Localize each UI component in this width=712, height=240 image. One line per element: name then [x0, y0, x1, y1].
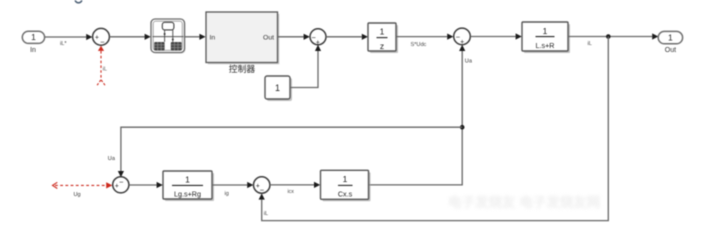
- svg-text:Ua: Ua: [465, 59, 473, 65]
- svg-text:iL: iL: [264, 211, 268, 217]
- wire LgRg to sum5: [212, 184, 247, 186]
- junction Ua node: [460, 125, 465, 130]
- wire LsR to Out1: [568, 36, 652, 38]
- svg-text:Cx.s: Cx.s: [338, 189, 353, 198]
- svg-text:iL: iL: [588, 41, 592, 47]
- subsystem 控制器: [208, 14, 279, 65]
- svg-text:1: 1: [185, 174, 190, 184]
- svg-text:icx: icx: [288, 189, 295, 195]
- svg-text:L.s+R: L.s+R: [536, 41, 555, 50]
- svg-text:−: −: [100, 37, 105, 46]
- svg-text:1: 1: [668, 32, 673, 42]
- junction iL node: [606, 34, 611, 39]
- sum S4: [113, 177, 129, 193]
- transfer fcn 1/(Lg.s+Rg): [165, 173, 214, 201]
- sum S1: [93, 28, 110, 45]
- unit delay 1/z: [370, 25, 398, 53]
- svg-text:Lg.s+Rg: Lg.s+Rg: [174, 190, 201, 199]
- svg-text:z: z: [380, 41, 384, 51]
- svg-text:1: 1: [275, 83, 280, 93]
- integrator 1/Cx.s: [323, 172, 371, 201]
- Ua branch wire to sum4: [121, 127, 462, 171]
- inport In1: [22, 31, 44, 43]
- transfer fcn 1/(L.s+R): [524, 24, 570, 53]
- svg-text:Out: Out: [665, 47, 676, 54]
- svg-text:控制器: 控制器: [229, 63, 256, 74]
- sum S2: [310, 29, 326, 45]
- sum S5: [254, 177, 270, 193]
- wire controller to sum2: [278, 36, 304, 38]
- svg-text:Ug: Ug: [74, 192, 81, 198]
- stateflow chart block: [153, 21, 186, 54]
- wire sum2 to 1/z: [326, 36, 362, 38]
- constant 1: [267, 78, 292, 101]
- svg-text:−: −: [260, 186, 265, 195]
- svg-text:iL: iL: [103, 67, 107, 73]
- svg-text:Ua: Ua: [108, 156, 116, 162]
- red dangling iL input: [98, 46, 104, 51]
- outport Out1: [658, 31, 682, 43]
- wire sum4 to LgRg: [129, 184, 157, 186]
- svg-text:In: In: [210, 34, 216, 41]
- wire chart to controller: [185, 36, 200, 38]
- svg-text:+: +: [95, 35, 99, 42]
- svg-text:S*Udc: S*Udc: [411, 42, 427, 48]
- svg-text:Out: Out: [263, 34, 274, 41]
- svg-text:1: 1: [31, 32, 36, 42]
- svg-text:In: In: [30, 47, 36, 54]
- red dangling Ug input: [53, 182, 58, 188]
- watermark: [448, 194, 600, 210]
- wire sum5 to Cx.s: [270, 184, 314, 186]
- svg-text:1: 1: [543, 26, 548, 36]
- iL feedback wire (right loop to sum5): [262, 37, 609, 221]
- svg-text:ig: ig: [225, 191, 229, 197]
- svg-text:电子发烧友 电子发烧友网: 电子发烧友 电子发烧友网: [448, 194, 600, 210]
- wire sum3 to LsR: [470, 36, 515, 38]
- stray glyph top edge: [75, 0, 81, 3]
- svg-text:1: 1: [380, 27, 385, 37]
- wire constant to sum2: [290, 51, 318, 88]
- svg-text:iL*: iL*: [60, 41, 67, 47]
- wire 1/z to sum3: [396, 36, 447, 38]
- Ua wire: Cx.s out up to sum3, junction at y127: [369, 51, 463, 185]
- svg-text:−: −: [119, 177, 124, 186]
- wire In1 to sum1: [45, 36, 87, 38]
- wire sum1 to chart: [109, 36, 144, 38]
- sum S3: [454, 28, 471, 45]
- svg-text:1: 1: [343, 174, 348, 184]
